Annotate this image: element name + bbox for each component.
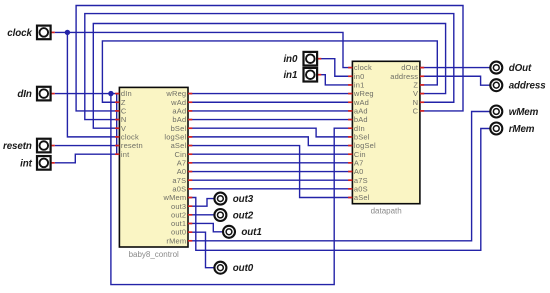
- svg-text:A0: A0: [177, 167, 187, 176]
- wire C net: [76, 6, 463, 111]
- svg-text:logSel: logSel: [164, 132, 186, 141]
- wire resetn net: [55, 145, 120, 147]
- svg-text:dIn: dIn: [17, 89, 32, 100]
- wire A7 net: [188, 162, 352, 164]
- svg-text:a7S: a7S: [354, 176, 368, 185]
- svg-text:wAd: wAd: [170, 98, 186, 107]
- svg-text:out0: out0: [171, 228, 186, 237]
- svg-text:out1: out1: [171, 219, 186, 228]
- wire rMem pin to wMem port: [188, 112, 490, 241]
- output port wMem: [490, 106, 538, 118]
- wire in1 net: [317, 75, 352, 85]
- svg-text:C: C: [413, 107, 419, 116]
- svg-text:aSel: aSel: [354, 193, 370, 202]
- svg-text:in0: in0: [283, 54, 298, 65]
- svg-text:int: int: [20, 158, 33, 169]
- svg-text:Z: Z: [121, 98, 126, 107]
- svg-text:wAd: wAd: [353, 98, 369, 107]
- wire Cin net: [188, 153, 352, 155]
- svg-text:Cin: Cin: [354, 150, 366, 159]
- component U1 baby8_control: [115, 87, 192, 258]
- svg-text:in1: in1: [354, 81, 365, 90]
- output port out3: [214, 193, 253, 205]
- output port out1: [223, 226, 262, 238]
- svg-text:in1: in1: [283, 70, 297, 81]
- wire wReg net: [188, 93, 352, 95]
- svg-text:V: V: [121, 124, 126, 133]
- svg-text:A7: A7: [354, 158, 364, 167]
- input port clock: [7, 26, 55, 40]
- svg-text:wMem: wMem: [509, 107, 539, 118]
- wire clock net: [55, 32, 353, 136]
- svg-text:N: N: [121, 115, 127, 124]
- svg-text:aAd: aAd: [354, 107, 368, 116]
- svg-text:aAd: aAd: [172, 107, 186, 116]
- svg-text:out2: out2: [171, 210, 186, 219]
- wire out3 net: [188, 199, 214, 207]
- svg-text:Z: Z: [413, 81, 418, 90]
- wire a0S net: [188, 188, 352, 190]
- wire out1 net: [188, 223, 222, 231]
- svg-text:out3: out3: [171, 202, 186, 211]
- svg-text:int: int: [121, 150, 130, 159]
- svg-text:bSel: bSel: [354, 132, 370, 141]
- svg-text:baby8_control: baby8_control: [129, 250, 179, 259]
- svg-text:dOut: dOut: [509, 63, 532, 74]
- svg-text:a7S: a7S: [172, 176, 186, 185]
- wire int net: [55, 154, 120, 163]
- svg-text:rMem: rMem: [509, 124, 535, 135]
- svg-text:bAd: bAd: [354, 115, 368, 124]
- wire dIn net: [55, 94, 353, 285]
- input port resetn: [3, 139, 55, 153]
- svg-text:logSel: logSel: [354, 141, 376, 150]
- svg-text:wReg: wReg: [353, 89, 374, 98]
- wire N net: [85, 14, 454, 120]
- svg-text:V: V: [413, 89, 418, 98]
- svg-text:dIn: dIn: [354, 124, 365, 133]
- wire dOut net: [420, 67, 490, 69]
- svg-text:dOut: dOut: [401, 63, 419, 72]
- svg-text:out1: out1: [241, 227, 261, 238]
- wire wAd net: [188, 101, 352, 103]
- wire aAd net: [188, 110, 352, 112]
- svg-text:bSel: bSel: [171, 124, 187, 133]
- output port address: [490, 79, 546, 91]
- svg-text:a0S: a0S: [172, 184, 186, 193]
- svg-text:address: address: [390, 72, 418, 81]
- svg-text:aSel: aSel: [171, 141, 187, 150]
- svg-text:out0: out0: [233, 263, 254, 274]
- input port int: [20, 156, 55, 170]
- wire Z net: [102, 41, 437, 102]
- input port dIn: [17, 87, 54, 101]
- junction dot dIn net: [108, 91, 113, 96]
- svg-text:A7: A7: [177, 158, 187, 167]
- svg-text:clock: clock: [354, 63, 372, 72]
- wire wMem pin to rMem port: [188, 129, 490, 251]
- wire out2 net: [188, 214, 214, 216]
- input port in0: [283, 52, 321, 66]
- svg-text:dIn: dIn: [121, 89, 132, 98]
- wire in0 net: [317, 59, 352, 77]
- wire address net: [420, 76, 490, 85]
- wire aSel net: [188, 146, 352, 198]
- svg-text:wReg: wReg: [165, 89, 186, 98]
- svg-text:bAd: bAd: [172, 115, 186, 124]
- svg-text:datapath: datapath: [371, 207, 402, 216]
- svg-text:in0: in0: [354, 72, 365, 81]
- wire logSel net: [188, 137, 352, 146]
- svg-text:rMem: rMem: [166, 236, 186, 245]
- svg-text:Cin: Cin: [175, 150, 187, 159]
- wire A0 net: [188, 171, 352, 173]
- wire out0 net: [188, 232, 214, 268]
- svg-text:clock: clock: [7, 28, 32, 39]
- svg-text:A0: A0: [354, 167, 364, 176]
- svg-text:address: address: [509, 81, 547, 92]
- wire a7S net: [188, 179, 352, 181]
- output port rMem: [490, 123, 535, 135]
- svg-text:out2: out2: [233, 210, 254, 221]
- wire bSel net: [188, 128, 352, 137]
- svg-text:resetn: resetn: [121, 141, 143, 150]
- output port out2: [214, 209, 253, 221]
- svg-text:a0S: a0S: [354, 184, 368, 193]
- svg-text:wMem: wMem: [162, 193, 186, 202]
- output port out0: [214, 262, 253, 274]
- svg-text:C: C: [121, 107, 127, 116]
- junction dot clock net: [65, 30, 70, 35]
- wire bAd net: [188, 119, 352, 121]
- wire V net: [93, 24, 445, 129]
- svg-text:out3: out3: [233, 194, 254, 205]
- svg-text:clock: clock: [121, 132, 139, 141]
- output port dOut: [490, 62, 532, 74]
- component U2 datapath: [348, 61, 424, 215]
- svg-text:N: N: [413, 98, 419, 107]
- svg-text:resetn: resetn: [3, 141, 32, 152]
- input port in1: [283, 68, 321, 82]
